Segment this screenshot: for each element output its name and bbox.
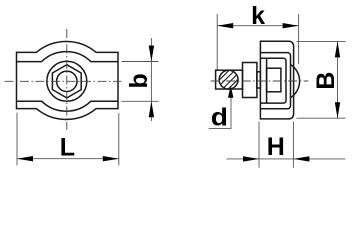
nut hexagon bbox=[52, 65, 81, 98]
side view: inner vertical line bbox=[266, 58, 268, 103]
side view: plate outer outline bbox=[260, 41, 293, 119]
arrow b top bbox=[149, 46, 154, 62]
boss circle bbox=[47, 61, 87, 101]
bolt circle bbox=[57, 71, 77, 91]
dimension H line bbox=[226, 158, 345, 160]
side view: plate fold line 3 bbox=[260, 58, 286, 103]
side view: bolt head rectangle bbox=[267, 68, 281, 92]
svg-text:d: d bbox=[211, 103, 228, 131]
svg-text:k: k bbox=[251, 2, 265, 30]
arrow H left bbox=[243, 156, 259, 161]
arrow b bottom bbox=[149, 101, 154, 117]
arrow k right bbox=[283, 23, 299, 28]
arrow B bottom bbox=[335, 102, 340, 118]
groove line top bbox=[17, 52, 119, 62]
dimension H extension lines bbox=[258, 122, 260, 168]
side view: rope groove bulge arc bbox=[291, 65, 300, 98]
dimension k extension lines bbox=[216, 14, 218, 70]
arrow B top bbox=[335, 41, 340, 57]
dimension L line bbox=[17, 158, 119, 160]
dimension b line bbox=[150, 38, 152, 121]
side view: washer rectangle bbox=[257, 72, 261, 88]
svg-text:B: B bbox=[312, 72, 340, 90]
side view: plate fold line 2 bbox=[260, 53, 290, 109]
arrow k left bbox=[217, 23, 233, 28]
dimension b extension lines bbox=[122, 61, 159, 63]
dimension L extension lines bbox=[16, 113, 18, 166]
arrow d bbox=[228, 85, 233, 98]
center line horizontal (side view) bbox=[211, 80, 309, 82]
dimension k line bbox=[217, 25, 298, 27]
side view: nut rectangle bbox=[243, 63, 257, 98]
side view: bolt shank rectangle bbox=[216, 70, 243, 89]
rope hatching bbox=[204, 62, 255, 95]
arrow L left bbox=[17, 156, 33, 161]
dimension d leader line bbox=[209, 95, 231, 128]
groove line bottom bbox=[17, 101, 119, 111]
center line vertical (front view) bbox=[66, 29, 68, 130]
svg-text:H: H bbox=[267, 133, 285, 161]
clip body front view outline bbox=[17, 42, 119, 120]
svg-text:b: b bbox=[125, 73, 153, 88]
svg-text:L: L bbox=[60, 133, 75, 161]
arrow L right bbox=[103, 156, 119, 161]
center line horizontal (front view) bbox=[5, 80, 122, 82]
arrow H right bbox=[293, 156, 309, 161]
dimension B line bbox=[337, 41, 339, 118]
rope cross-section circle bbox=[204, 62, 255, 95]
dimension B extension lines bbox=[297, 40, 346, 42]
